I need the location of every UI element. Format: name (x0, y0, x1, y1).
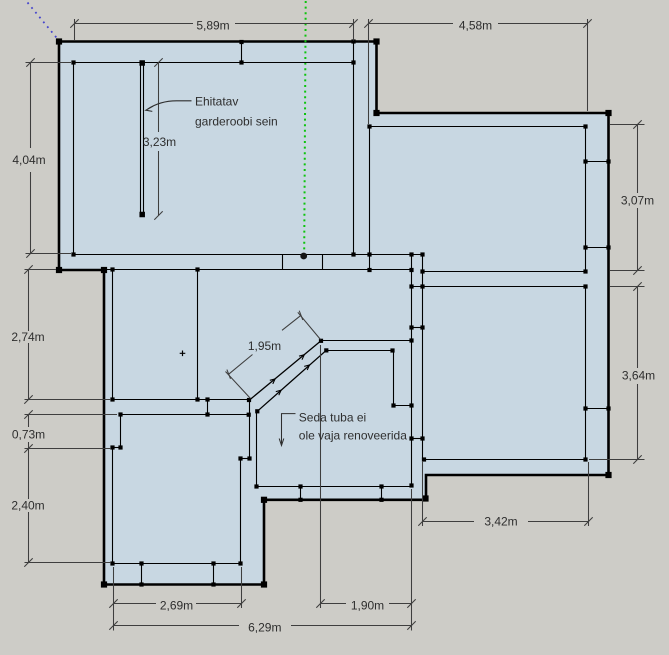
svg-text:2,74m: 2,74m (11, 330, 44, 344)
svg-text:4,58m: 4,58m (459, 18, 492, 32)
svg-text:1,95m: 1,95m (248, 339, 281, 353)
svg-text:Seda tuba ei: Seda tuba ei (299, 411, 366, 425)
svg-text:3,07m: 3,07m (621, 194, 654, 208)
svg-text:1,90m: 1,90m (351, 598, 384, 612)
svg-text:Ehitatav: Ehitatav (195, 95, 238, 109)
svg-text:3,42m: 3,42m (484, 515, 517, 529)
svg-text:3,64m: 3,64m (622, 369, 655, 383)
svg-text:0,73m: 0,73m (12, 428, 45, 442)
svg-text:ole vaja renoveerida: ole vaja renoveerida (299, 429, 407, 443)
svg-text:6,29m: 6,29m (248, 620, 281, 634)
svg-text:5,89m: 5,89m (196, 18, 229, 32)
svg-text:3,23m: 3,23m (143, 135, 176, 149)
svg-text:4,04m: 4,04m (12, 153, 45, 167)
svg-text:garderoobi sein: garderoobi sein (195, 115, 278, 129)
svg-text:2,69m: 2,69m (160, 598, 193, 612)
svg-text:2,40m: 2,40m (11, 499, 44, 513)
